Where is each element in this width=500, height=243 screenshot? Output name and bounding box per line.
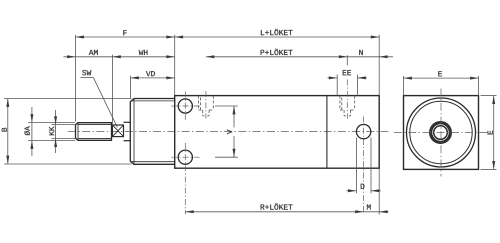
label E right rotated	[488, 131, 493, 135]
E top dimension line	[404, 77, 479, 79]
rear cushion screw circle	[356, 124, 370, 138]
ext line body front x174.7	[174, 35, 176, 96]
label N	[359, 50, 363, 55]
label SW	[82, 70, 91, 75]
B dimension line	[7, 99, 9, 165]
label L+LOKET	[261, 29, 293, 35]
label F	[123, 30, 126, 35]
cylinder body	[175, 96, 380, 169]
label WH	[139, 50, 148, 55]
piston rod threaded end	[76, 123, 112, 141]
label AM	[89, 50, 98, 55]
label V rotated	[227, 130, 232, 135]
label KK rotated	[49, 126, 54, 135]
front mounting hole top	[178, 99, 192, 113]
label E top	[438, 71, 442, 76]
hole centerlines	[171, 92, 200, 215]
E right ext lines	[481, 95, 497, 97]
rear port hidden outline	[340, 96, 355, 116]
OA dimension line	[31, 107, 33, 156]
D arrow tails	[347, 190, 357, 192]
end view square	[404, 96, 479, 170]
rear circle centerline	[363, 117, 365, 215]
label P+LOKET	[261, 49, 293, 55]
label EE	[343, 70, 351, 75]
ext line rear port center upper	[346, 55, 348, 65]
end view bore circles	[407, 98, 476, 167]
R+LOKET dimension line	[185, 211, 363, 213]
front bearing cap flange	[130, 99, 174, 165]
label M	[367, 205, 371, 210]
wrench flat box SW (square with X)	[112, 125, 123, 137]
F dimension line	[76, 36, 175, 38]
rod bearing boss	[124, 122, 131, 140]
EE ext lines	[336, 75, 338, 96]
main centerline	[68, 131, 389, 133]
label B rotated	[2, 128, 7, 132]
label OA rotated	[24, 126, 29, 135]
body rear lower ext line	[378, 168, 380, 214]
VD dimension line	[130, 77, 174, 79]
V dimension line	[233, 106, 235, 127]
E right dimension line	[493, 96, 495, 170]
label VD	[146, 71, 155, 76]
end view centerlines	[394, 89, 489, 177]
ext line rod end x75.5	[75, 35, 77, 122]
L+LOKET dimension line	[175, 36, 380, 38]
EE arrow tails	[328, 77, 338, 79]
E top ext lines	[403, 76, 405, 95]
AM/WH dimension line	[64, 56, 175, 58]
P+LOKET dimension line	[206, 56, 347, 58]
rod thread lines	[78, 123, 112, 140]
M dimension line	[364, 211, 389, 213]
SW leader line	[81, 77, 118, 127]
rear head joint line	[326, 96, 328, 169]
ext line flange front x130.4	[129, 76, 131, 99]
arrowheads	[6, 36, 495, 214]
front port centerline	[205, 91, 207, 119]
end view rod/thread circles	[430, 122, 452, 144]
ext line body rear x379.2	[378, 35, 380, 96]
V ext lines	[215, 105, 238, 107]
OA ext lines	[28, 122, 75, 124]
N dimension line	[347, 56, 393, 58]
B ext lines	[4, 98, 132, 100]
label R+LOKET	[261, 203, 293, 209]
front mounting hole bottom	[178, 150, 192, 164]
flange chamfer lines	[131, 99, 175, 164]
KK ext lines	[52, 124, 76, 126]
label D	[361, 184, 365, 189]
rear port centerline	[346, 80, 348, 119]
front port hidden outline	[199, 96, 214, 116]
D ext lines	[355, 138, 357, 194]
ext line wrench box x112.4	[111, 55, 113, 126]
KK dimension line	[55, 110, 57, 153]
